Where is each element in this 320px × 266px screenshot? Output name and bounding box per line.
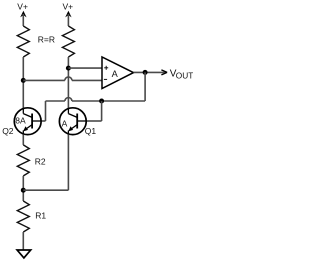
svg-text:R=R: R=R xyxy=(38,35,55,45)
wire R2 bottom to R1 top xyxy=(22,176,24,201)
node junction dot left column at inverting tap xyxy=(21,78,26,83)
label R2 xyxy=(35,156,46,166)
wire feedback horizontal to bases (hops over Q1 collector line) xyxy=(46,98,146,102)
transistor Q1 xyxy=(59,108,86,135)
node VOUT label xyxy=(170,69,194,81)
svg-text:R1: R1 xyxy=(35,211,46,221)
resistor R1 xyxy=(17,201,29,232)
wire right resistor bottom to Q1 collector xyxy=(67,57,69,109)
value label R=R xyxy=(38,35,55,45)
op-amp U1 xyxy=(102,57,134,89)
svg-text:A: A xyxy=(62,119,68,129)
svg-text:V+: V+ xyxy=(17,2,28,12)
value label A (Q1 emitter area) xyxy=(62,119,68,129)
ground xyxy=(17,250,31,258)
resistor R right (R=R) xyxy=(62,26,74,57)
output arrowhead to VOUT xyxy=(161,70,167,75)
wire feedback vertical from output dot xyxy=(144,72,146,101)
resistor R2 xyxy=(17,145,29,176)
power V+ left arrow xyxy=(20,11,26,26)
power V+ right label xyxy=(63,2,74,12)
wire Q1 base riser xyxy=(86,101,102,121)
svg-text:Q1: Q1 xyxy=(85,126,97,136)
node junction dot feedback to Q1 base xyxy=(99,99,104,104)
svg-text:A: A xyxy=(112,69,119,79)
resistor R left (R=R) xyxy=(17,26,29,57)
node junction dot R2/R1/Q1-emitter xyxy=(21,188,26,193)
wire R1 bottom to ground xyxy=(22,232,24,250)
power V+ left label xyxy=(17,2,28,12)
wire Q2 base riser xyxy=(41,101,46,121)
svg-text:V+: V+ xyxy=(63,2,74,12)
svg-text:OUT: OUT xyxy=(176,70,193,80)
transistor Q2 xyxy=(14,108,41,135)
power V+ right arrow xyxy=(65,11,71,26)
wire non-inverting input xyxy=(68,67,102,69)
wire Q1 emitter down and across xyxy=(23,135,68,191)
label Q1 xyxy=(85,126,97,136)
svg-text:8A: 8A xyxy=(15,116,26,126)
svg-text:Q2: Q2 xyxy=(2,126,14,136)
node junction dot right column at non-inverting tap xyxy=(66,66,71,71)
node junction dot at output xyxy=(143,70,148,75)
wire left resistor bottom to Q2 collector xyxy=(22,57,24,109)
wire Q2 emitter to R2 xyxy=(22,135,24,145)
wire inverting input (hops over Q1 collector line) xyxy=(23,77,102,81)
wire op-amp output xyxy=(134,71,167,73)
label Q2 xyxy=(2,126,14,136)
value label 8A (Q2 emitter area) xyxy=(15,116,26,126)
svg-text:R2: R2 xyxy=(35,156,46,166)
label R1 xyxy=(35,211,46,221)
